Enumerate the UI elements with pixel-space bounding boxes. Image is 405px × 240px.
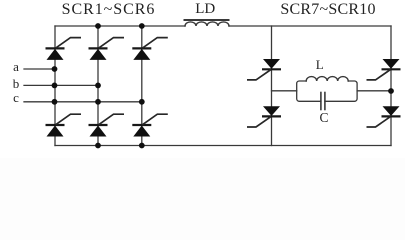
svg-text:LD: LD xyxy=(195,1,215,17)
svg-text:SCR1~SCR6: SCR1~SCR6 xyxy=(62,1,156,18)
svg-text:c: c xyxy=(13,90,19,105)
svg-text:L: L xyxy=(316,57,324,72)
svg-text:SCR7~SCR10: SCR7~SCR10 xyxy=(280,1,375,18)
svg-text:a: a xyxy=(13,59,19,74)
svg-text:C: C xyxy=(319,110,328,125)
svg-text:b: b xyxy=(13,76,20,91)
